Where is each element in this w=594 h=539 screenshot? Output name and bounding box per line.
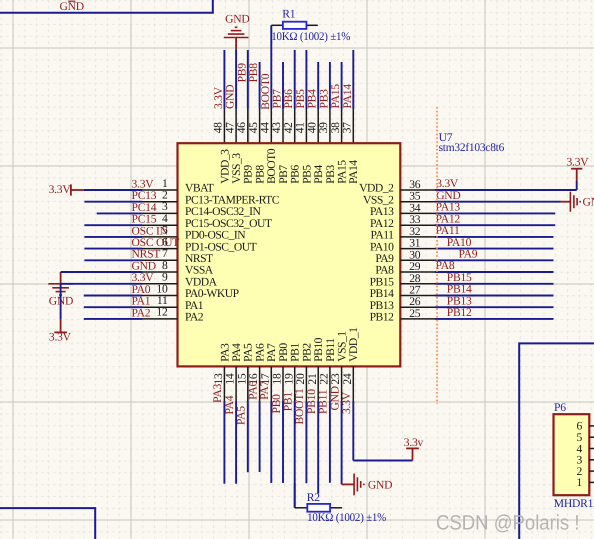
ground GND power port (right, pin 35) <box>561 201 571 203</box>
resistor R2 <box>294 483 296 508</box>
wire 3.3V net vertical (pin 9) <box>60 284 62 320</box>
svg-text:25: 25 <box>409 307 421 320</box>
pin 9 stub (left) <box>142 283 178 285</box>
pin 39 stub (top) <box>329 108 331 143</box>
wire net BOOT0 (pin 44) <box>270 25 272 108</box>
wire net PB4 (pin 40) <box>317 62 319 109</box>
pin 16 stub (bottom) <box>259 366 261 401</box>
pin 31 stub (right) <box>400 248 435 250</box>
pin 24 stub (bottom) <box>352 366 354 401</box>
wire net PB3 (pin 39) <box>329 62 331 109</box>
wire net 3.3V (pin 24) <box>352 401 354 461</box>
svg-text:10KΩ (1002) ±1%: 10KΩ (1002) ±1% <box>271 30 351 43</box>
wire net PA2 (pin 12) <box>84 318 142 320</box>
power port 3.3V (left bottom, pin 9) <box>60 320 62 333</box>
pin 22 stub (bottom) <box>329 366 331 401</box>
svg-text:CSDN @Polaris !: CSDN @Polaris ! <box>436 511 580 534</box>
wire net PB11 (pin 22) <box>329 401 331 483</box>
wire net PA6 (pin 16) <box>259 401 261 472</box>
wire net PB9 (pin 46) <box>247 50 249 109</box>
pin 37 stub (top) <box>352 108 354 143</box>
pin 1 stub (left) <box>142 189 178 191</box>
wire net GND (pin 8) <box>61 271 143 273</box>
svg-text:10KΩ (1002) ±1%: 10KΩ (1002) ±1% <box>307 511 387 524</box>
wire net PB5 (pin 41) <box>305 50 307 109</box>
pin 19 stub (bottom) <box>294 366 296 401</box>
pin 6 stub (left) <box>142 248 178 250</box>
svg-text:37: 37 <box>341 122 354 134</box>
pin 25 stub (right) <box>400 318 435 320</box>
svg-text:PA2: PA2 <box>132 306 151 319</box>
wire net PC14 (pin 3) <box>97 212 142 214</box>
svg-text:stm32f103c8t6: stm32f103c8t6 <box>439 141 505 154</box>
wire net PA1 (pin 11) <box>84 306 142 308</box>
wire net PB1 (pin 19) <box>294 401 296 508</box>
svg-text:GND: GND <box>60 0 84 13</box>
dotted marker line (orange) <box>436 107 438 404</box>
pin 48 stub (top) <box>223 108 225 143</box>
svg-text:3.3V: 3.3V <box>567 156 590 169</box>
pin 29 stub (right) <box>400 271 435 273</box>
wire net PC13 (pin 2) <box>84 201 142 203</box>
wire net PB14 (pin 27) <box>435 295 554 297</box>
svg-text:PA14: PA14 <box>347 160 360 184</box>
pin 43 stub (top) <box>282 108 284 143</box>
wire net 3.3V (pin 36) <box>435 189 577 191</box>
wire net PB12 (pin 25) <box>435 318 554 320</box>
pin 35 stub (right) <box>400 201 435 203</box>
pin 20 stub (bottom) <box>305 366 307 401</box>
svg-text:R1: R1 <box>282 7 295 20</box>
connector P6 body <box>554 414 590 495</box>
pin 11 stub (left) <box>142 306 178 308</box>
wire net PA5 (pin 15) <box>247 401 249 472</box>
wire net BOOT1 (pin 20) <box>305 401 307 483</box>
pin 12 stub (left) <box>142 318 178 320</box>
pin 44 stub (top) <box>270 108 272 143</box>
svg-text:3.3V: 3.3V <box>49 330 72 343</box>
pin 30 stub (right) <box>400 259 435 261</box>
pin 2 stub (P6) <box>589 470 594 472</box>
pin 47 stub (top) <box>235 108 237 143</box>
pin 40 stub (top) <box>317 108 319 143</box>
wire net PB10 (pin 21) <box>317 401 319 494</box>
pin 27 stub (right) <box>400 295 435 297</box>
wire net PA13 (pin 34) <box>435 212 555 214</box>
wire net PB8 (pin 45) <box>259 62 261 109</box>
wire net 3.3V (pin 48) <box>223 50 225 109</box>
pin 4 stub (left) <box>142 224 178 226</box>
wire net GND (pin 35) <box>435 201 561 203</box>
pin 5 stub (P6) <box>589 436 594 438</box>
op-amp U7 chip body stm32f103c8t6 <box>178 143 401 366</box>
pin 23 stub (bottom) <box>341 366 343 401</box>
pin 5 stub (left) <box>142 236 178 238</box>
power port 3.3V (top right, pin 36) <box>576 181 578 190</box>
pin 21 stub (bottom) <box>317 366 319 401</box>
wire net PA10 (pin 31) <box>435 248 554 250</box>
pin 42 stub (top) <box>294 108 296 143</box>
wire net OSC OUT (pin 6) <box>84 248 142 250</box>
pin 45 stub (top) <box>259 108 261 143</box>
wire net 3.3V (pin 9) <box>61 283 143 285</box>
wire net PA8 (pin 29) <box>435 271 554 273</box>
pin 3 stub (left) <box>142 212 178 214</box>
svg-text:GND: GND <box>225 13 249 26</box>
pin 13 stub (bottom) <box>223 366 225 401</box>
wire net GND (pin 47) <box>235 50 237 109</box>
pin 15 stub (bottom) <box>247 366 249 401</box>
wire net PB0 (pin 18) <box>282 401 284 483</box>
wire net PA7 (pin 17) <box>270 401 272 483</box>
wire net GND (pin 23) <box>341 401 343 484</box>
wire net NRST (pin 7) <box>84 259 142 261</box>
svg-text:VDD_1: VDD_1 <box>347 327 360 362</box>
pin 3 stub (P6) <box>589 459 594 461</box>
pin 36 stub (right) <box>400 189 435 191</box>
pin 46 stub (top) <box>247 108 249 143</box>
wire net PA11 (pin 32) <box>435 236 554 238</box>
pin 6 stub (P6) <box>589 425 594 427</box>
pin 2 stub (left) <box>142 201 178 203</box>
wire net PA0 (pin 10) <box>84 295 142 297</box>
pin 17 stub (bottom) <box>270 366 272 401</box>
wire net PB6 (pin 42) <box>294 50 296 109</box>
pin 10 stub (left) <box>142 295 178 297</box>
pin 14 stub (bottom) <box>235 366 237 401</box>
svg-text:3.3V: 3.3V <box>49 183 72 196</box>
svg-text:12: 12 <box>156 306 168 319</box>
wire top-left GND net <box>0 0 213 13</box>
wire net PB7 (pin 43) <box>282 62 284 109</box>
wire net PA3 (pin 13) <box>223 401 225 484</box>
pin 41 stub (top) <box>305 108 307 143</box>
ground GND power port (left, pin 8) <box>60 272 62 284</box>
pin 18 stub (bottom) <box>282 366 284 401</box>
svg-text:GND: GND <box>368 478 392 491</box>
svg-text:P6: P6 <box>554 401 566 414</box>
ground GND power port (bottom, pin 23) <box>342 483 355 485</box>
pin 1 stub (P6) <box>589 481 594 483</box>
wire net PA12 (pin 33) <box>435 224 555 226</box>
wire net PB13 (pin 26) <box>435 306 554 308</box>
power port 3.3v (bottom, pin 24) <box>353 460 412 462</box>
svg-text:R2: R2 <box>307 491 320 504</box>
pin 4 stub (P6) <box>589 448 594 450</box>
pin 28 stub (right) <box>400 283 435 285</box>
pin 34 stub (right) <box>400 212 435 214</box>
svg-text:PA2: PA2 <box>185 311 204 324</box>
wire net OSC IN (pin 5) <box>84 236 142 238</box>
svg-text:GND: GND <box>224 85 237 109</box>
svg-text:24: 24 <box>341 373 354 385</box>
svg-text:PB12: PB12 <box>447 306 472 319</box>
svg-text:PB12: PB12 <box>370 311 394 324</box>
wire net PB15 (pin 28) <box>435 283 554 285</box>
svg-text:PA5: PA5 <box>235 406 248 425</box>
wire bottom-left net <box>0 508 95 539</box>
wire net PA15 (pin 38) <box>341 62 343 109</box>
pin 33 stub (right) <box>400 224 435 226</box>
pin 32 stub (right) <box>400 236 435 238</box>
svg-text:PA9: PA9 <box>459 248 478 261</box>
wire net 3.3V (pin 1) <box>84 189 142 191</box>
svg-text:1: 1 <box>576 476 582 489</box>
wire net PA14 (pin 37) <box>352 50 354 109</box>
svg-text:3.3v: 3.3v <box>404 436 424 449</box>
wire net PA4 (pin 14) <box>235 401 237 484</box>
wire right vertical net <box>519 343 594 539</box>
pin 7 stub (left) <box>142 259 178 261</box>
pin 38 stub (top) <box>341 108 343 143</box>
svg-text:3.3V: 3.3V <box>340 391 353 414</box>
wire net PC15 (pin 4) <box>84 224 142 226</box>
pin 8 stub (left) <box>142 271 178 273</box>
wire net PA9 (pin 30) <box>435 259 554 261</box>
svg-text:GND: GND <box>583 196 594 209</box>
svg-text:MHDR1X6: MHDR1X6 <box>554 497 594 510</box>
pin 26 stub (right) <box>400 306 435 308</box>
resistor R1 <box>271 24 283 26</box>
svg-text:PA14: PA14 <box>341 84 354 109</box>
